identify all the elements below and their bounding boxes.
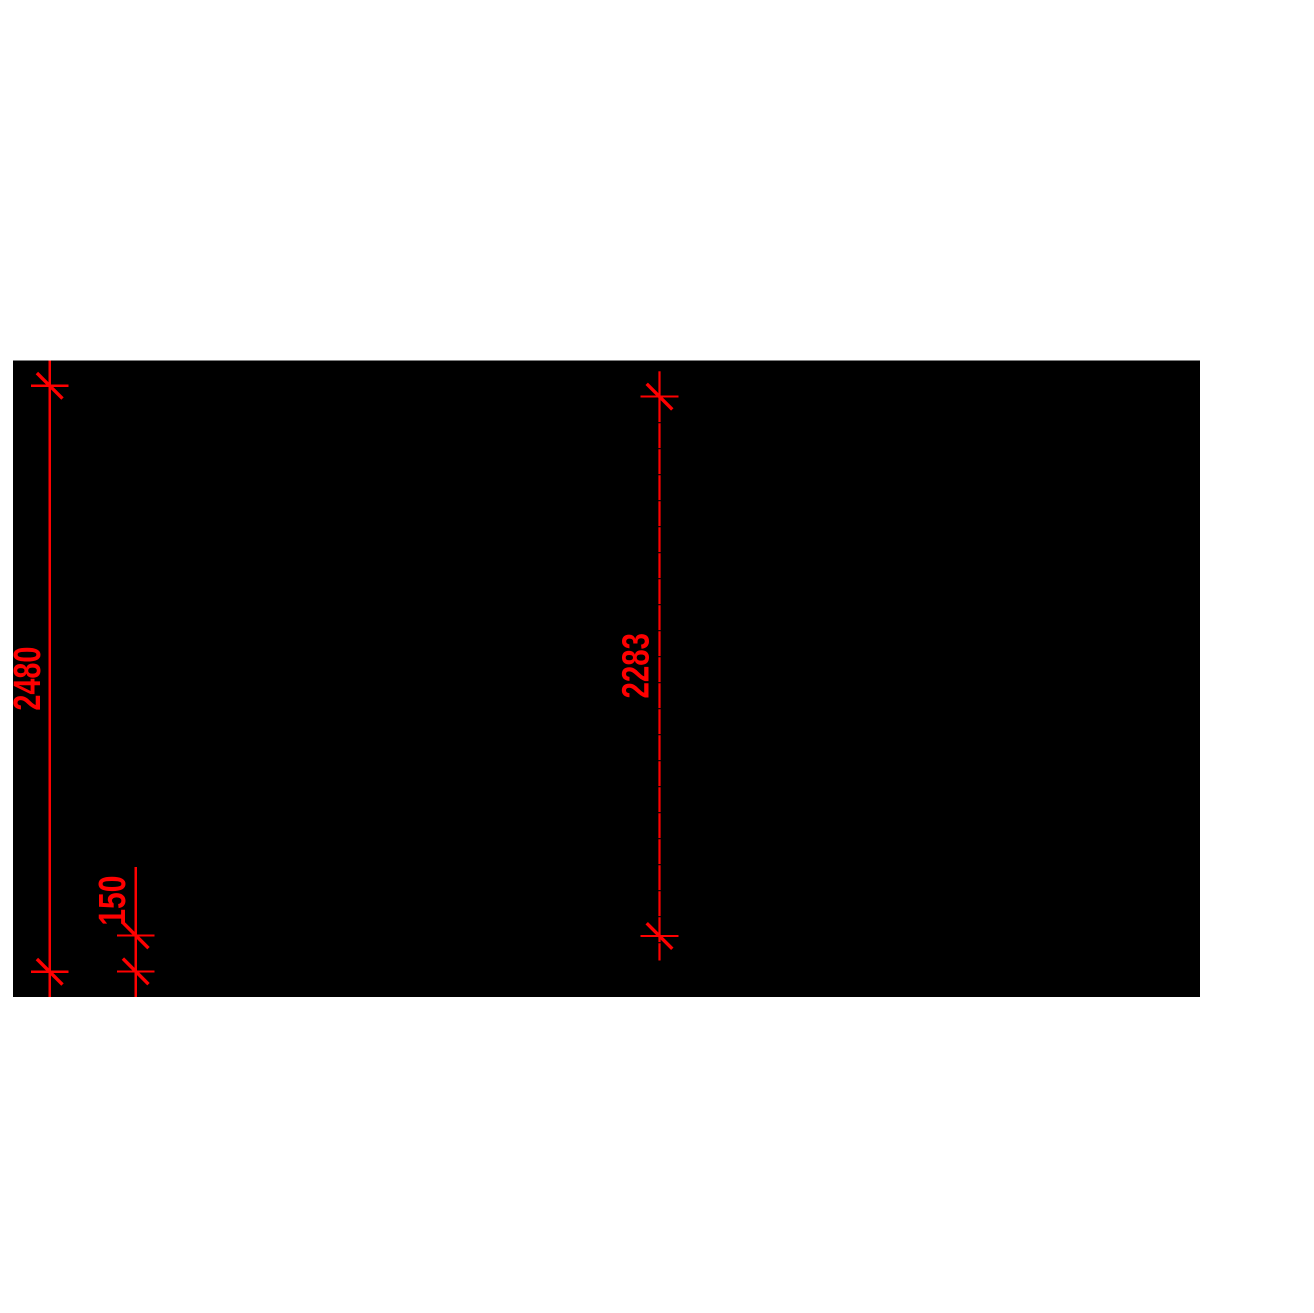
tick 2480 bottom bbox=[31, 959, 69, 985]
dimension line 2480 bbox=[49, 361, 51, 997]
tick 2283 bottom bbox=[641, 923, 679, 949]
tick 2480 top bbox=[31, 373, 69, 399]
dimension line 150 bbox=[135, 867, 137, 997]
svg-text:2480: 2480 bbox=[7, 647, 49, 711]
tick 150 bottom bbox=[117, 959, 155, 985]
wall panel (black elevation) bbox=[13, 361, 1200, 997]
tick 150 top bbox=[117, 923, 155, 949]
svg-text:2283: 2283 bbox=[615, 633, 657, 699]
dimension line 2283 (dashed) bbox=[658, 371, 660, 960]
svg-text:150: 150 bbox=[92, 876, 134, 926]
tick 2283 top bbox=[641, 384, 679, 410]
